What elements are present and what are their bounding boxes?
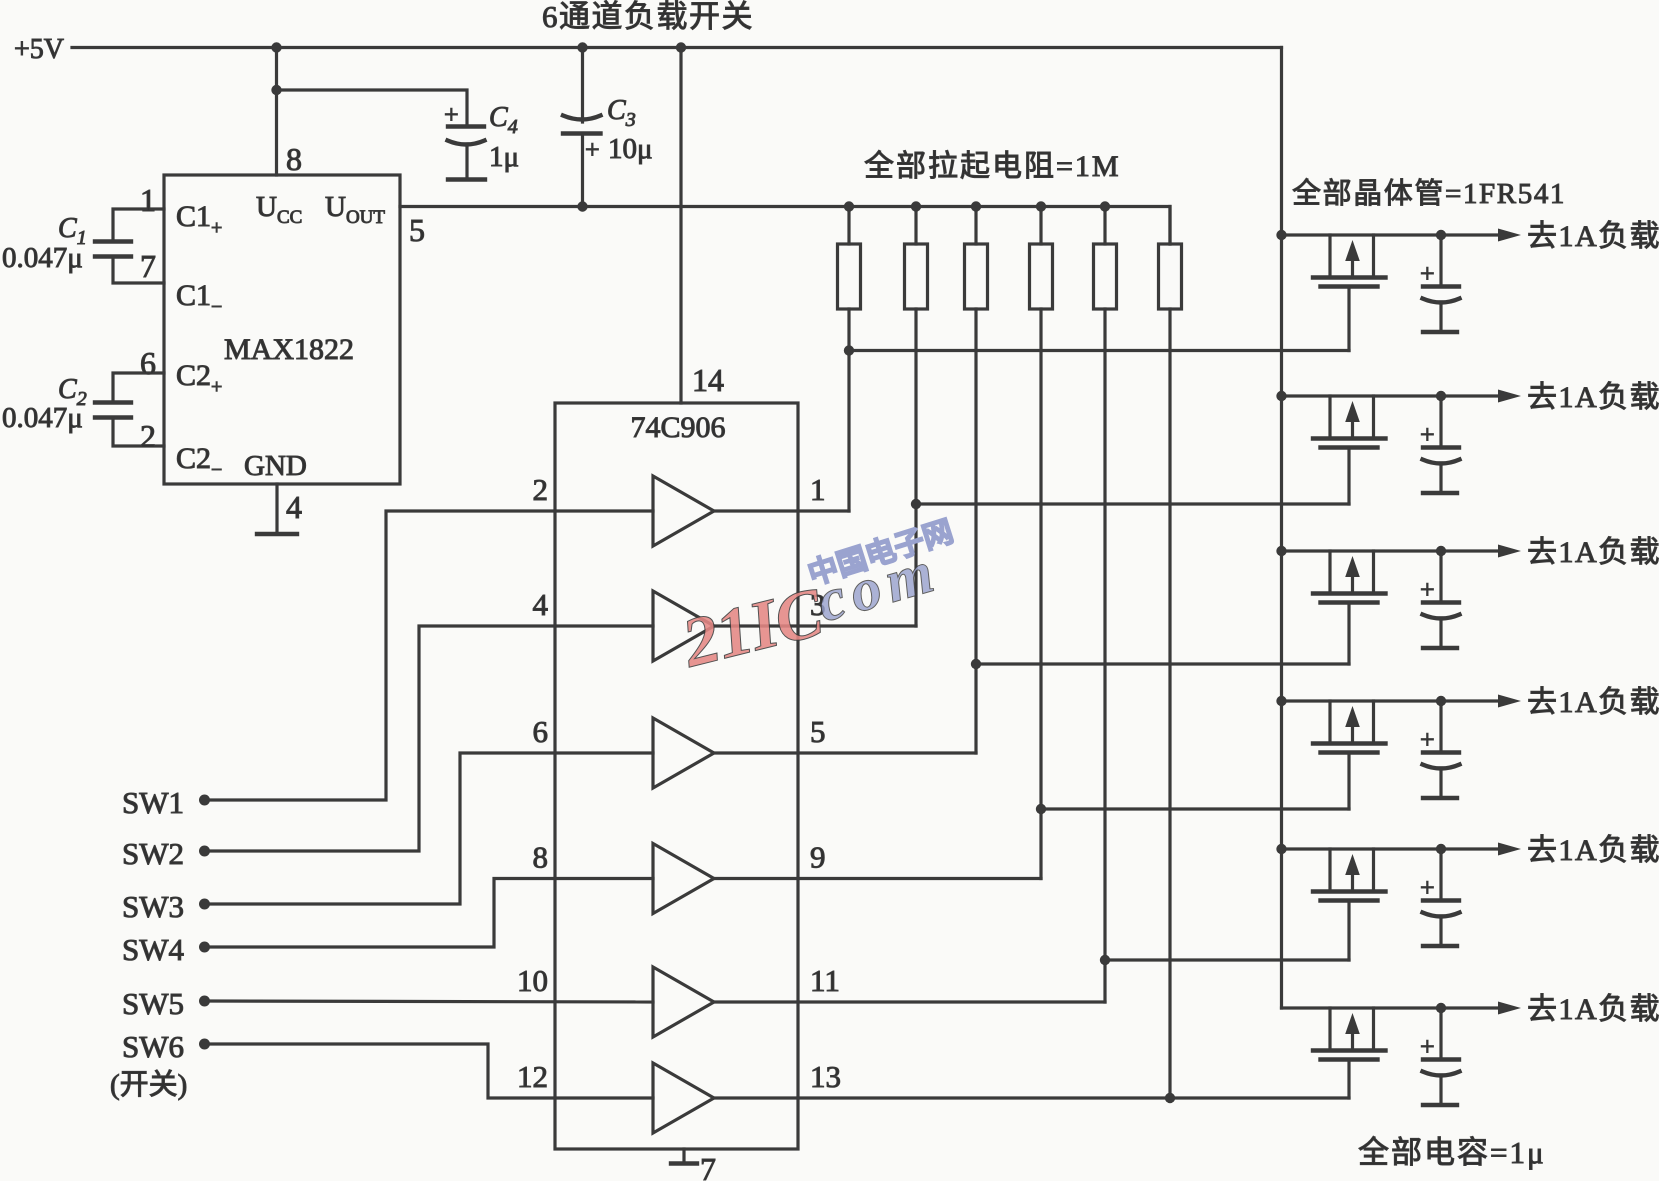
wire R6 top stub [1168,207,1171,245]
svg-text:去1A负载: 去1A负载 [1527,686,1659,719]
label C1 [58,213,87,249]
capacitor C4 [448,127,485,178]
node R6/gate junction [1165,1093,1175,1103]
label SW2 [122,836,184,871]
wire output arrow channel 3 [1441,545,1521,558]
wire buffer 3 output [714,624,916,627]
label 全部晶体管=1FR541 [1292,177,1566,210]
wire R2 top stub [914,207,917,245]
label UCC [256,191,302,228]
ground output cap channel 4 [1423,796,1457,800]
wire gate line channel 3 [976,662,1349,665]
label title 6通道负载开关 [542,0,754,34]
label pin 1 [140,182,156,218]
label pin 10 [517,963,548,998]
wire pin 7 GND stub [682,1149,685,1162]
label C1 value 0.047μ [2,242,83,274]
op-amp U2 74C906 box [555,403,798,1149]
node rail junction channel 3 [1276,546,1286,556]
svg-text:9: 9 [810,840,826,875]
ground output cap channel 6 [1423,1103,1457,1107]
resistor R5 1M [1094,244,1117,309]
label 全部拉起电阻=1M [864,150,1121,183]
transistor Q1 1FR541 [1282,235,1442,287]
label pin 2 [533,472,549,507]
label 去1A负载 channel 2 [1527,381,1659,414]
wire pin 1 to C1 [113,209,164,241]
label pin 6 [533,714,549,749]
label 去1A负载 channel 5 [1527,834,1659,867]
node SW2 terminal [199,846,210,857]
wire R4 top stub [1039,207,1042,245]
label +5V [14,34,64,65]
wire +5V to pin 14 [679,48,682,404]
svg-text:+: + [1420,725,1435,754]
svg-text:1μ: 1μ [489,141,519,173]
node C3/UOUT junction [577,201,587,211]
svg-text:SW6: SW6 [122,1029,184,1064]
label pin 7 [140,248,156,284]
svg-text:12: 12 [517,1059,548,1094]
ground output cap channel 5 [1423,944,1457,948]
resistor R2 1M [905,244,928,309]
label pin C1- [176,279,222,318]
label pin 6 [140,345,156,381]
node load junction channel 6 [1436,1003,1446,1013]
svg-text:SW4: SW4 [122,932,185,967]
label C3 value 10μ [608,133,653,165]
wire Q1 gate riser [1347,288,1350,351]
label C4 value 1μ [489,141,519,173]
transistor Q4 1FR541 [1282,701,1442,753]
buffer U2d pin 8->9 [653,844,714,914]
buffer U2f pin 12->13 [653,1063,714,1133]
svg-text:(开关): (开关) [110,1068,187,1101]
wire gate line channel 6 [1170,1096,1349,1099]
node SW3 terminal [199,899,210,910]
wire R3 top stub [974,207,977,245]
svg-text:全部晶体管=1FR541: 全部晶体管=1FR541 [1292,177,1566,210]
svg-text:8: 8 [286,141,302,177]
node load junction channel 1 [1436,230,1446,240]
label + output cap channel 3 [1420,575,1435,604]
wire output arrow channel 2 [1441,390,1521,403]
capacitor output C channel 4 [1423,701,1460,797]
node SW6 terminal [199,1039,210,1050]
node UCC/C4 junction [271,85,281,95]
svg-text:6通道负载开关: 6通道负载开关 [542,0,754,34]
svg-text:MAX1822: MAX1822 [224,333,354,366]
node rail junction channel 4 [1276,696,1286,706]
svg-text:6: 6 [533,714,549,749]
capacitor output C channel 6 [1423,1008,1460,1104]
label 去1A负载 channel 3 [1527,536,1659,569]
wire pin 6 to C2 [113,373,164,402]
svg-text:+: + [1420,575,1435,604]
node load junction channel 2 [1436,391,1446,401]
svg-text:+: + [1420,1032,1435,1061]
wire R5 top stub [1103,207,1106,245]
wire buffer 13 output [714,1096,1170,1099]
node UOUT junction R5 [1100,201,1110,211]
wire gate line channel 1 [849,349,1349,352]
wire R5 bottom riser [1103,309,1106,1002]
label (开关) [110,1068,187,1101]
watermark com [809,537,947,635]
label pin 7 of 74C906 [700,1151,716,1181]
label + output cap channel 2 [1420,420,1435,449]
svg-text:5: 5 [810,714,826,749]
wire SW1 to pin 2 [205,511,654,800]
ground output cap channel 1 [1423,330,1457,334]
node SW4 terminal [199,942,210,953]
label pin 12 [517,1059,548,1094]
capacitor C2 [95,403,131,418]
transistor Q5 1FR541 [1282,849,1442,901]
svg-text:2: 2 [533,472,549,507]
svg-text:1: 1 [140,182,156,218]
label C2 [58,374,87,410]
wire R4 bottom riser [1039,309,1042,879]
label 去1A负载 channel 4 [1527,686,1659,719]
node R5/gate junction [1100,955,1110,965]
label + output cap channel 1 [1420,259,1435,288]
label + output cap channel 4 [1420,725,1435,754]
wire pin 4 GND [275,484,278,533]
resistor R3 1M [965,244,988,309]
node UOUT junction R3 [971,201,981,211]
svg-text:去1A负载: 去1A负载 [1527,993,1659,1026]
wire +5V to C3 [581,48,584,123]
ground output cap channel 2 [1423,491,1457,495]
label pin C1+ [176,200,222,239]
wire R3 bottom riser [974,309,977,753]
wire output arrow channel 1 [1441,229,1521,242]
wire pin 8 UCC riser [275,48,278,176]
wire SW3 to pin 6 [205,753,654,904]
wire Q2 gate riser [1347,449,1350,504]
ground C4 [448,177,485,181]
node R1/gate junction [844,345,854,355]
svg-text:10: 10 [517,963,548,998]
label pin 13 [810,1059,841,1094]
label pin 5 [409,212,425,248]
node load junction channel 4 [1436,696,1446,706]
wire R1 top stub [847,207,850,245]
svg-text:2: 2 [140,418,156,454]
svg-text:7: 7 [140,248,156,284]
svg-text:+: + [1420,873,1435,902]
capacitor output C channel 5 [1423,849,1460,945]
wire buffer 5 output [714,751,976,754]
resistor R6 1M [1159,244,1182,309]
wire output arrow channel 5 [1441,843,1521,856]
svg-text:8: 8 [533,840,549,875]
node +5V junction at pin 14 riser [676,42,686,52]
svg-text:SW1: SW1 [122,785,184,820]
svg-text:+: + [1420,420,1435,449]
label MAX1822 [224,333,354,366]
ground MAX1822 pin 4 [257,532,297,536]
label C3 [607,95,636,131]
svg-text:去1A负载: 去1A负载 [1527,536,1659,569]
label C4 polarity + [444,100,459,129]
label SW3 [122,889,184,924]
buffer U2c pin 6->5 [653,718,714,788]
wire R6 bottom riser [1168,309,1171,1098]
svg-text:SW5: SW5 [122,986,184,1021]
wire buffer 9 output [714,877,1041,880]
wire R2 bottom riser [914,309,917,626]
label pin 11 [810,963,840,998]
node R2/gate junction [911,499,921,509]
label C3 polarity + [585,135,600,164]
label SW4 [122,932,185,967]
wire gate line channel 5 [1105,958,1349,961]
label 去1A负载 channel 6 [1527,993,1659,1026]
node R4/gate junction [1036,804,1046,814]
wire output arrow channel 4 [1441,695,1521,708]
svg-text:0.047μ: 0.047μ [2,402,83,434]
wire Q5 gate riser [1347,902,1350,960]
buffer U2a pin 2->1 [653,476,714,546]
label SW6 [122,1029,184,1064]
label SW1 [122,785,184,820]
svg-text:去1A负载: 去1A负载 [1527,834,1659,867]
transistor Q2 1FR541 [1282,396,1442,448]
label + output cap channel 6 [1420,1032,1435,1061]
label C4 [489,102,518,138]
node UOUT junction R4 [1036,201,1046,211]
node rail junction channel 5 [1276,844,1286,854]
capacitor C3 [563,116,601,207]
node rail junction channel 1 [1276,230,1286,240]
resistor R4 1M [1030,244,1053,309]
svg-text:+5V: +5V [14,34,64,65]
label pin C2- [176,442,222,481]
svg-text:1: 1 [810,472,826,507]
label pin 1 [810,472,826,507]
capacitor output C channel 1 [1423,235,1460,331]
label 74C906 [630,411,725,444]
svg-text:全部拉起电阻=1M: 全部拉起电阻=1M [864,150,1121,183]
wire SW6 to pin 12 [205,1044,654,1098]
wire SW2 to pin 4 [205,626,654,851]
label pin 4 [533,587,549,622]
resistor R1 1M [838,244,861,309]
label GND [244,450,307,482]
label + output cap channel 5 [1420,873,1435,902]
label pin 8 [533,840,549,875]
label C2 value 0.047μ [2,402,83,434]
label pin 2 [140,418,156,454]
capacitor output C channel 2 [1423,396,1460,492]
label UOUT [325,191,385,228]
svg-text:SW2: SW2 [122,836,184,871]
transistor Q3 1FR541 [1282,551,1442,603]
ground 74C906 pin 7 [671,1161,697,1165]
label pin 9 [810,840,826,875]
svg-text:5: 5 [409,212,425,248]
svg-text:4: 4 [286,489,302,525]
wire Q6 gate riser [1347,1061,1350,1098]
svg-text:+: + [585,135,600,164]
wire +5V rail [72,46,1282,49]
wire UCC to C4 [277,90,468,125]
label pin 8 [286,141,302,177]
svg-text:0.047μ: 0.047μ [2,242,83,274]
svg-text:6: 6 [140,345,156,381]
svg-text:14: 14 [692,362,724,398]
buffer U2e pin 10->11 [653,967,714,1037]
svg-text:+: + [444,100,459,129]
wire buffer 11 output [714,1000,1105,1003]
label pin 5 [810,714,826,749]
wire gate line channel 4 [1041,807,1349,810]
wire pin 7 to C1 [113,257,164,283]
transistor Q6 1FR541 [1282,1008,1442,1060]
wire SW5 to pin 10 [205,1001,654,1002]
wire SW4 to pin 8 [205,879,654,948]
wire Q3 gate riser [1347,604,1350,664]
buffer U2b pin 4->3 [653,591,714,661]
node UOUT junction R2 [911,201,921,211]
node SW5 terminal [199,996,210,1007]
svg-text:SW3: SW3 [122,889,184,924]
svg-text:去1A负载: 去1A负载 [1527,220,1659,253]
node SW1 terminal [199,795,210,806]
svg-text:全部电容=1μ: 全部电容=1μ [1358,1135,1546,1170]
node rail junction channel 2 [1276,391,1286,401]
label 去1A负载 channel 1 [1527,220,1659,253]
label pin 14 [692,362,724,398]
node load junction channel 3 [1436,546,1446,556]
svg-text:74C906: 74C906 [630,411,725,444]
svg-text:去1A负载: 去1A负载 [1527,381,1659,414]
wire Q4 gate riser [1347,754,1350,809]
ground output cap channel 3 [1423,646,1457,650]
watermark 21IC [674,573,832,682]
label SW5 [122,986,184,1021]
label pin 3 [810,587,826,622]
op-amp U1 MAX1822 box [164,175,400,484]
wire output arrow channel 6 [1441,1002,1521,1015]
wire gate line channel 2 [916,502,1349,505]
capacitor output C channel 3 [1423,551,1460,647]
node R3/gate junction [971,659,981,669]
svg-text:10μ: 10μ [608,133,653,165]
node +5V junction at UCC riser [271,42,281,52]
svg-text:+: + [1420,259,1435,288]
svg-text:7: 7 [700,1151,716,1181]
wire buffer 1 output [714,509,849,512]
svg-text:GND: GND [244,450,307,482]
svg-text:13: 13 [810,1059,841,1094]
wire UOUT bus [400,207,1170,245]
wire R1 bottom riser [847,309,850,511]
label pin C2+ [176,359,222,398]
label 全部电容=1μ [1358,1135,1546,1170]
svg-text:11: 11 [810,963,840,998]
svg-text:4: 4 [533,587,549,622]
wire +5V right rail [1280,48,1283,1009]
wire pin 2 to C2 [113,418,164,446]
node load junction channel 5 [1436,844,1446,854]
label pin 4 [286,489,302,525]
node +5V junction at C3 [577,42,587,52]
node UOUT junction R1 [844,201,854,211]
capacitor C1 [95,242,131,257]
watermark 中国电子网 [804,515,957,592]
